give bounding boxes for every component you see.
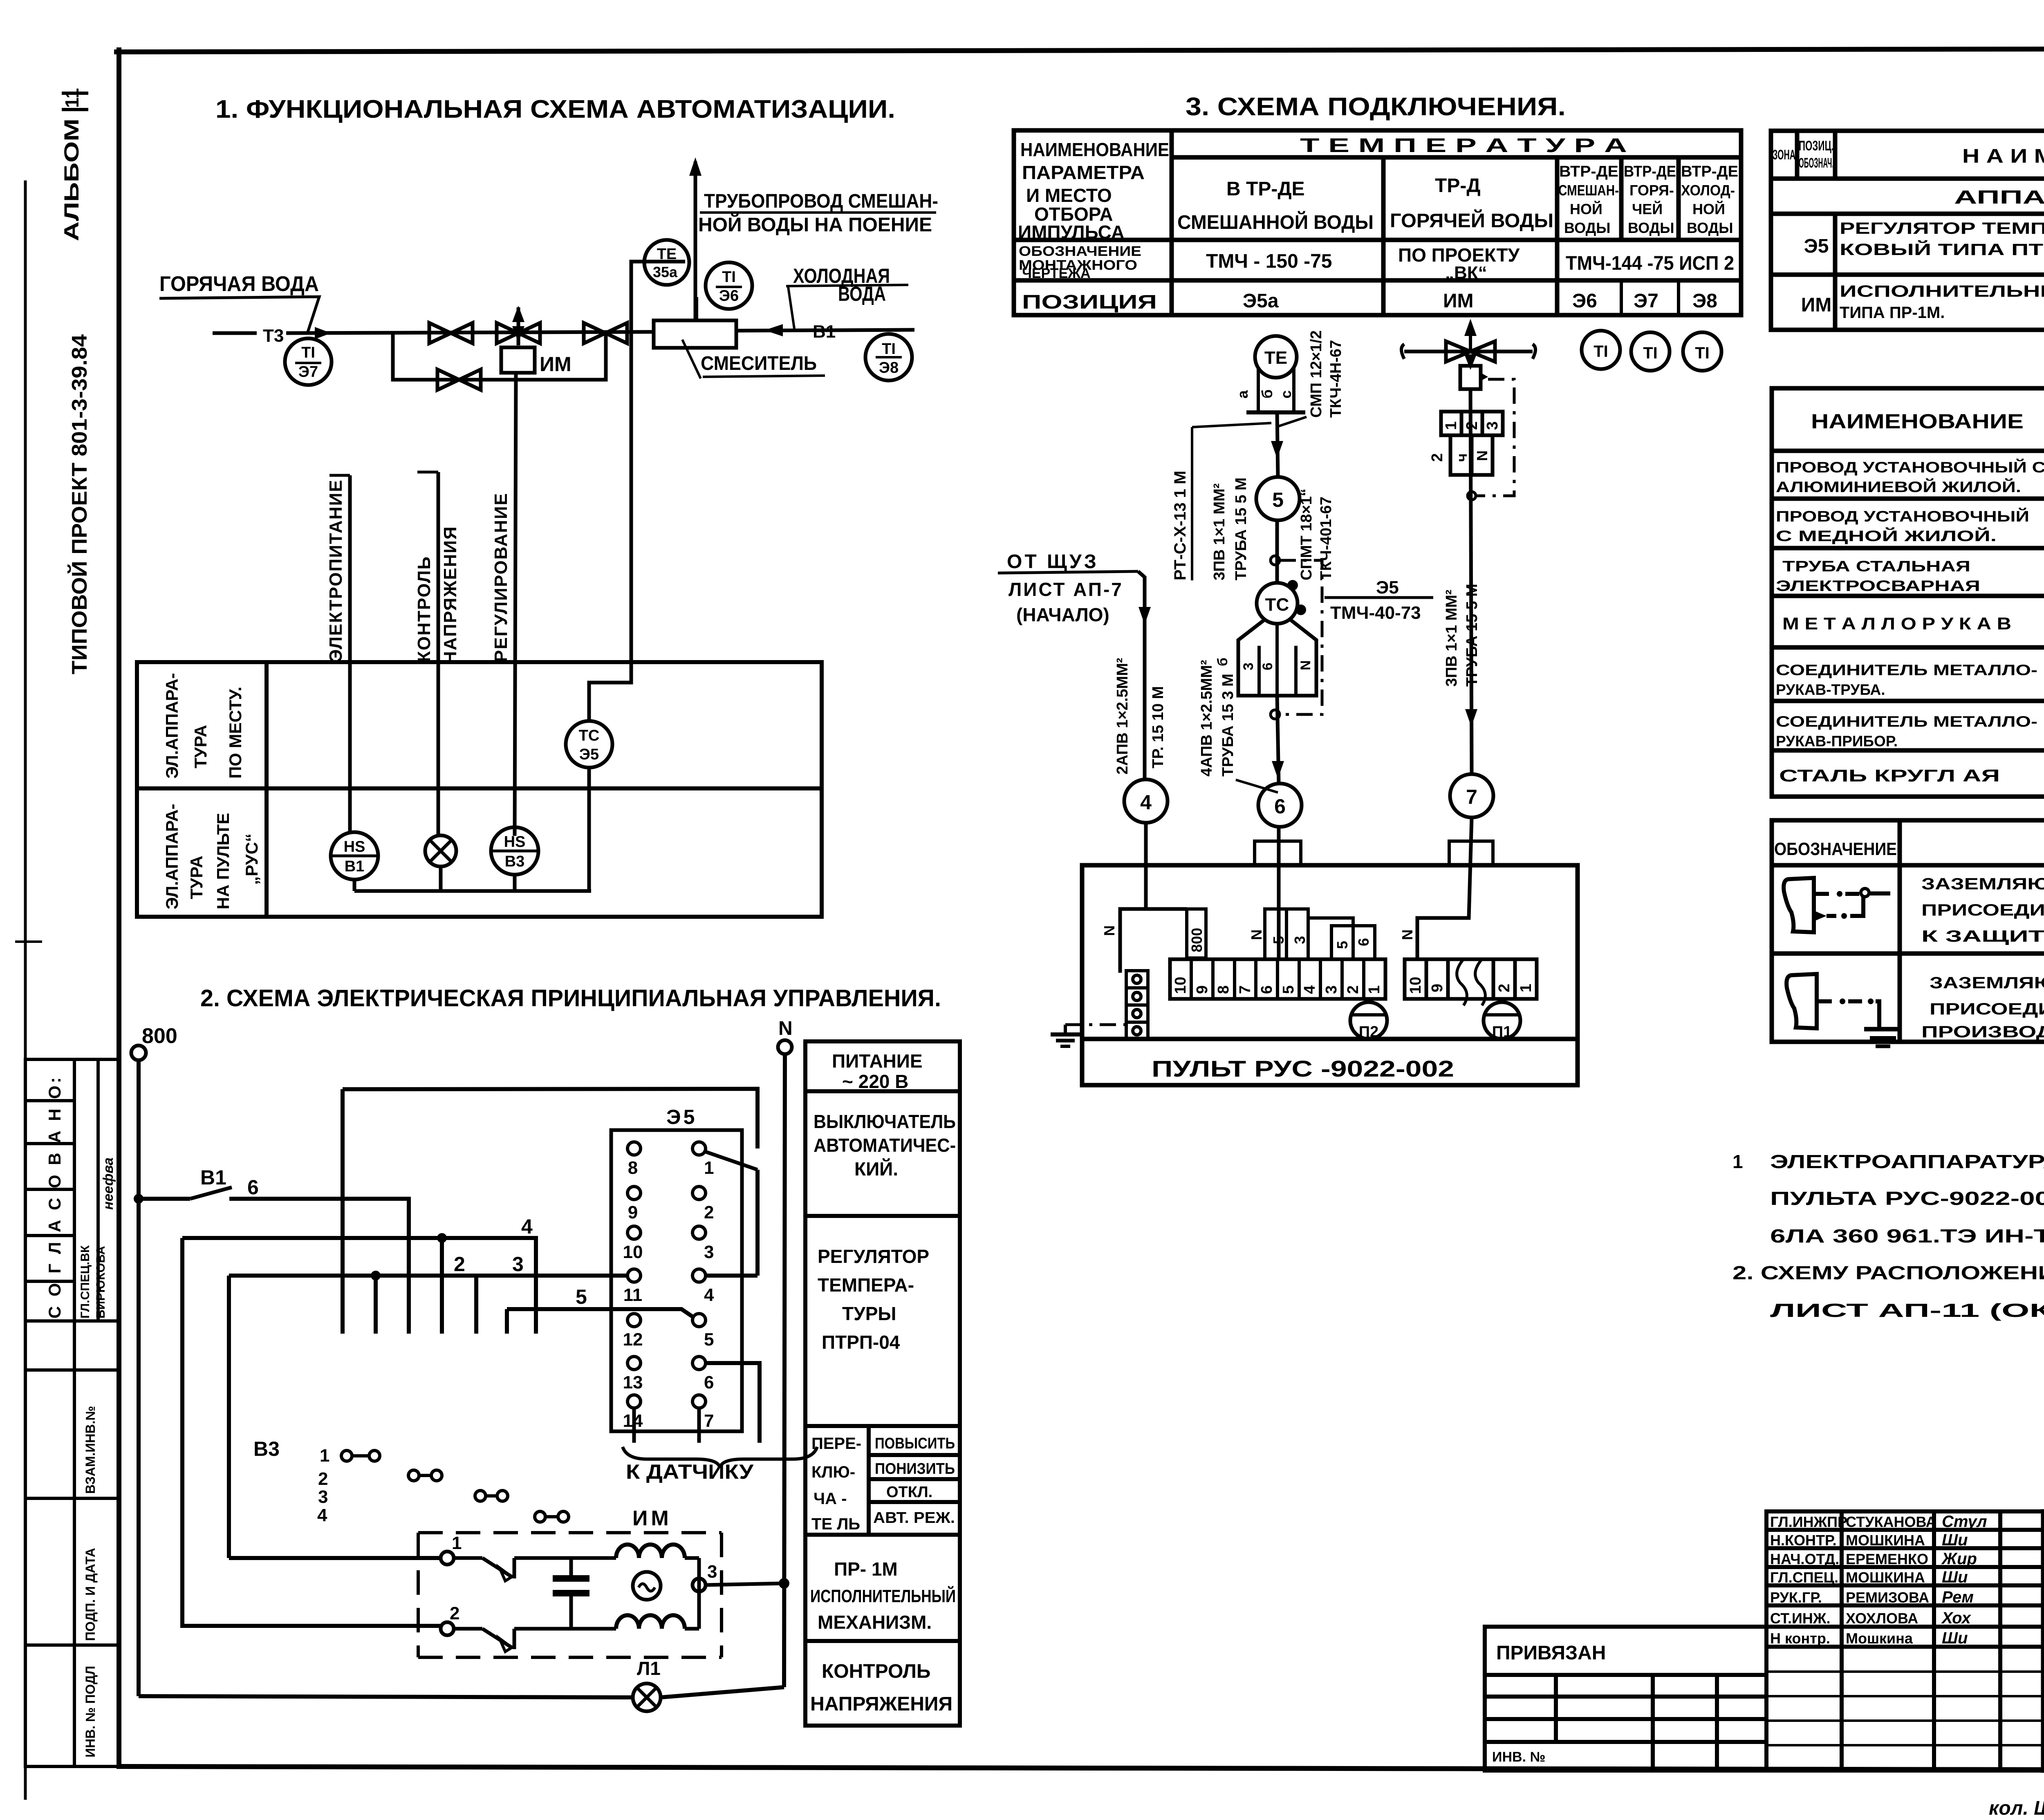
svg-text:1: 1 (1366, 985, 1383, 994)
svg-text:ч: ч (1453, 453, 1470, 462)
svg-text:N: N (1399, 929, 1416, 940)
hot water pipe Т3 (213, 331, 257, 335)
svg-text:ВТР-ДЕ: ВТР-ДЕ (1624, 163, 1676, 180)
svg-text:б: б (1215, 658, 1230, 666)
svg-text:9: 9 (1429, 984, 1446, 992)
HS/B1 circle (331, 832, 378, 880)
junction dot wire4 (437, 1233, 447, 1243)
svg-text:„РУС“: „РУС“ (242, 833, 261, 885)
svg-text:ТРУБА 15 5 М: ТРУБА 15 5 М (1233, 477, 1250, 580)
contact 6 wire (706, 1363, 760, 1443)
IM dashed box (418, 1533, 722, 1657)
R1: apparatus table (1771, 131, 2044, 330)
svg-text:7: 7 (1466, 786, 1477, 808)
svg-text:ХОЛОД-: ХОЛОД- (1681, 182, 1735, 199)
line mixer to TE circle and down (left vertical) (589, 262, 685, 722)
svg-text:11: 11 (61, 88, 83, 108)
svg-text:неефва: неефва (101, 1157, 116, 1210)
circle 7 (1450, 774, 1493, 817)
svg-text:КОНТРОЛЬ: КОНТРОЛЬ (414, 556, 434, 662)
svg-text:ТМЧ - 150 -75: ТМЧ - 150 -75 (1206, 251, 1332, 272)
svg-text:2. СХЕМУ РАСПОЛОЖЕНИЯ УЗЛА: 2. СХЕМУ РАСПОЛОЖЕНИЯ УЗЛА ПОЕНИЯ СМ. ВЫ… (1732, 1262, 2044, 1283)
svg-text:Э7: Э7 (1634, 290, 1659, 312)
lower coil (616, 1615, 685, 1629)
svg-text:б: б (1259, 390, 1275, 398)
svg-text:1. ФУНКЦИОНАЛЬНАЯ СХЕМА АВТО: 1. ФУНКЦИОНАЛЬНАЯ СХЕМА АВТОМАТИЗАЦИИ. (215, 95, 895, 123)
svg-text:N: N (1298, 660, 1313, 670)
svg-text:ЗАЗЕМЛЯЮЩИЙ ПРОВОДНИК ЭЛЕКТР: ЗАЗЕМЛЯЮЩИЙ ПРОВОДНИК ЭЛЕКТРОУСТАНОВКИ. (1921, 874, 2044, 893)
terminal 2 (441, 1622, 454, 1635)
пульт box (1082, 865, 1578, 1085)
R3: legend table (1772, 820, 2044, 1042)
TI/Э6 circle (706, 262, 752, 309)
svg-text:СПМТ 18×1“: СПМТ 18×1“ (1298, 488, 1315, 580)
svg-text:3: 3 (1291, 936, 1308, 944)
svg-text:ЭЛЕКТРОАППАРАТУРА В1.В3.Л1 ВХО: ЭЛЕКТРОАППАРАТУРА В1.В3.Л1 ВХОДИТ В КОМП… (1770, 1151, 2044, 1172)
svg-text:АВТ. РЕЖ.: АВТ. РЕЖ. (873, 1509, 955, 1527)
svg-text:ВЗАМ.ИНВ.№: ВЗАМ.ИНВ.№ (83, 1406, 98, 1494)
svg-text:ТУРА: ТУРА (191, 725, 210, 768)
svg-text:МЕХАНИЗМ.: МЕХАНИЗМ. (818, 1612, 932, 1633)
wire TC to 6 (1277, 696, 1279, 784)
svg-text:(НАЧАЛО): (НАЧАЛО) (1016, 604, 1109, 625)
svg-text:РЕГУЛЯТОР ТЕМПЕРАТУРЫ ПОЛУПРОВ: РЕГУЛЯТОР ТЕМПЕРАТУРЫ ПОЛУПРОВОДНИ- (1840, 219, 2044, 237)
svg-text:9: 9 (628, 1202, 638, 1222)
bracket cells above strip (1265, 909, 1375, 959)
svg-text:М Е Т А Л Л О Р У К А В: М Е Т А Л Л О Р У К А В (1782, 614, 2011, 633)
svg-text:АЛЮМИНИЕВОЙ ЖИЛОЙ.: АЛЮМИНИЕВОЙ ЖИЛОЙ. (1776, 478, 2021, 495)
svg-text:ЛИСТ АП-7: ЛИСТ АП-7 (1009, 579, 1123, 600)
circle 6 (1258, 784, 1302, 827)
svg-text:2: 2 (1345, 985, 1362, 994)
svg-text:К ЗАЩИТНОЙ ТРУБЕ.: К ЗАЩИТНОЙ ТРУБЕ. (1921, 927, 2044, 945)
thyristor on wire2 (454, 1627, 482, 1631)
svg-text:ВЫКЛЮЧАТЕЛЬ: ВЫКЛЮЧАТЕЛЬ (814, 1111, 956, 1132)
svg-text:СОЕДИНИТЕЛЬ МЕТАЛЛО-: СОЕДИНИТЕЛЬ МЕТАЛЛО- (1776, 662, 2037, 678)
terminal strip П1 cells 10,9,2,1 (1405, 959, 1537, 999)
svg-text:2: 2 (450, 1603, 459, 1623)
svg-text:Э8: Э8 (1692, 290, 1717, 312)
wire 4 bus (182, 1238, 536, 1334)
svg-text:ТЕ: ТЕ (1264, 348, 1287, 368)
svg-text:ТМЧ-144 -75 ИСП 2: ТМЧ-144 -75 ИСП 2 (1566, 253, 1734, 274)
svg-text:Э5: Э5 (666, 1106, 697, 1128)
svg-text:800: 800 (142, 1024, 177, 1048)
svg-text:ЗАЗЕМЛЯЮЩИЙ ПРОВОДНИК ЭЛЕКТР: ЗАЗЕМЛЯЮЩИЙ ПРОВОДНИК ЭЛЕКТРОУСТАНОВКИ, (1930, 973, 2044, 992)
svg-text:ТКЧ-4Н-67: ТКЧ-4Н-67 (1327, 340, 1345, 418)
svg-text:N: N (1248, 929, 1265, 940)
svg-text:5: 5 (704, 1330, 714, 1350)
svg-text:НА ПУЛЬТЕ: НА ПУЛЬТЕ (213, 813, 233, 909)
svg-text:4: 4 (1301, 985, 1318, 994)
svg-text:HS: HS (344, 838, 365, 855)
svg-text:4АПВ 1×2.5ММ²: 4АПВ 1×2.5ММ² (1198, 660, 1215, 777)
wire 5 to contact (507, 1309, 693, 1317)
svg-text:ЭЛ.АППАРА-: ЭЛ.АППАРА- (162, 804, 182, 909)
svg-text:ЕРЕМЕНКО: ЕРЕМЕНКО (1846, 1551, 1928, 1567)
ground terminal column (1126, 971, 1148, 1039)
svg-text:ГОРЯ-: ГОРЯ- (1629, 182, 1674, 199)
svg-text:ЭЛЕКТРОПИТАНИЕ: ЭЛЕКТРОПИТАНИЕ (326, 479, 346, 662)
svg-text:ТЕМПЕРА-: ТЕМПЕРА- (818, 1274, 914, 1296)
svg-text:Стул: Стул (1942, 1513, 1987, 1531)
svg-text:ПОЗИЦ.: ПОЗИЦ. (1799, 138, 1834, 154)
svg-text:В3: В3 (505, 853, 525, 870)
svg-text:МОШКИНА: МОШКИНА (1846, 1569, 1925, 1586)
П2 circle (1350, 1002, 1387, 1039)
switch B1 (139, 1197, 190, 1201)
svg-text:5: 5 (576, 1285, 587, 1308)
svg-text:6: 6 (704, 1372, 714, 1392)
TC circle (1257, 583, 1298, 624)
svg-text:ЧЕЙ: ЧЕЙ (1632, 200, 1663, 217)
leader underline for Горячая вода (159, 297, 319, 333)
svg-text:8: 8 (1215, 985, 1232, 994)
svg-text:ТИПОВОЙ ПРОЕКТ 801-3-39.84: ТИПОВОЙ ПРОЕКТ 801-3-39.84 (67, 334, 92, 674)
svg-text:ПИТАНИЕ: ПИТАНИЕ (832, 1050, 923, 1072)
svg-text:3: 3 (512, 1253, 524, 1276)
svg-text:НОЙ: НОЙ (1692, 200, 1725, 217)
svg-text:В ТР-ДЕ: В ТР-ДЕ (1226, 178, 1305, 200)
svg-text:ПРОВОД УСТАНОВОЧНЫЙ С: ПРОВОД УСТАНОВОЧНЫЙ С (1776, 459, 2044, 476)
svg-text:13: 13 (623, 1372, 643, 1392)
svg-text:4: 4 (1140, 791, 1152, 814)
svg-text:П2: П2 (1359, 1023, 1378, 1041)
frame top border (117, 48, 2044, 52)
svg-text:3: 3 (707, 1562, 717, 1582)
bypass loop (393, 333, 606, 380)
svg-text:ТРУБА 15 5 М: ТРУБА 15 5 М (1464, 584, 1481, 687)
svg-text:кол. Ш: кол. Ш (1989, 1798, 2044, 1819)
3-way control valve with actuator arrows (497, 307, 540, 345)
svg-text:ТI: ТI (882, 340, 896, 358)
svg-text:ПРОВОД УСТАНОВОЧНЫЙ: ПРОВОД УСТАНОВОЧНЫЙ (1776, 508, 2029, 525)
wires into IM (229, 1556, 441, 1560)
svg-text:СМЕСИТЕЛЬ: СМЕСИТЕЛЬ (701, 353, 817, 374)
svg-text:3: 3 (1241, 663, 1256, 670)
svg-text:Э6: Э6 (719, 287, 739, 304)
svg-text:Ши: Ши (1942, 1629, 1968, 1647)
svg-text:ТЕ ЛЬ: ТЕ ЛЬ (811, 1515, 860, 1533)
svg-text:ПОНИЗИТЬ: ПОНИЗИТЬ (875, 1460, 955, 1477)
svg-text:ВОДЫ: ВОДЫ (1687, 219, 1733, 236)
section1 lower table (137, 662, 822, 917)
svg-text:СМП 12×1/2: СМП 12×1/2 (1308, 330, 1325, 418)
svg-text:~ 220 В: ~ 220 В (842, 1071, 908, 1092)
svg-text:В1: В1 (345, 858, 365, 875)
svg-text:Э5: Э5 (1804, 235, 1829, 257)
svg-text:ПАРАМЕТРА: ПАРАМЕТРА (1022, 162, 1145, 183)
wire from 800 node down (137, 1060, 141, 1696)
svg-text:ЧА -: ЧА - (814, 1490, 847, 1508)
svg-text:ВТР-ДЕ: ВТР-ДЕ (1681, 163, 1738, 180)
svg-text:Н контр.: Н контр. (1770, 1630, 1830, 1647)
svg-text:ПРИСОЕДИНЯЕМЫЙ К БРОНЕ. ОБОЛО: ПРИСОЕДИНЯЕМЫЙ К БРОНЕ. ОБОЛОЧКЕ КАБЕЛЯ … (1921, 900, 2044, 919)
svg-text:ПУЛЬТА РУС-9022-002. ПО ЧЕРТЕ: ПУЛЬТА РУС-9022-002. ПО ЧЕРТЕЖАМ 6ЛА.360… (1770, 1188, 2044, 1209)
terminal block 1 2 3 (1441, 412, 1503, 475)
svg-text:ТУРЫ: ТУРЫ (842, 1303, 896, 1324)
svg-text:В3: В3 (253, 1437, 280, 1460)
svg-text:3: 3 (1484, 421, 1501, 430)
svg-text:СТ.ИНЖ.: СТ.ИНЖ. (1770, 1610, 1830, 1627)
svg-text:„ВК“: „ВК“ (1445, 263, 1487, 283)
svg-text:ТР-Д: ТР-Д (1435, 175, 1481, 197)
svg-text:3ПВ 1×1 ММ²: 3ПВ 1×1 ММ² (1211, 484, 1228, 580)
svg-text:5: 5 (1272, 488, 1284, 511)
wire with arrow (286, 332, 654, 333)
svg-text:Н.КОНТР.: Н.КОНТР. (1770, 1532, 1837, 1549)
svg-text:Э5а: Э5а (1243, 290, 1279, 312)
svg-text:ГОРЯЧАЯ ВОДА: ГОРЯЧАЯ ВОДА (159, 272, 319, 296)
svg-text:6: 6 (1355, 938, 1372, 946)
svg-text:Т Е М П Е Р А Т У Р А: Т Е М П Е Р А Т У Р А (1300, 135, 1627, 157)
svg-text:Ши: Ши (1942, 1568, 1968, 1586)
svg-text:НАПРЯЖЕНИЯ: НАПРЯЖЕНИЯ (810, 1693, 953, 1715)
svg-text:800: 800 (1188, 928, 1205, 952)
svg-text:6ЛА 360 961.ТЭ ИН-ТА „ВНИИЭЛ: 6ЛА 360 961.ТЭ ИН-ТА „ВНИИЭЛЕКТРОПРИВОД“… (1770, 1225, 2044, 1247)
svg-text:КИЙ.: КИЙ. (854, 1158, 898, 1180)
svg-text:ИМПУЛЬСА: ИМПУЛЬСА (1018, 222, 1125, 243)
svg-text:РТ-С-Х-13 1 М: РТ-С-Х-13 1 М (1171, 471, 1189, 580)
circle 5 (1256, 477, 1300, 520)
svg-text:ТУРА: ТУРА (187, 856, 206, 899)
svg-text:МОШКИНА: МОШКИНА (1846, 1532, 1925, 1549)
svg-text:ГЛ.ИНЖПР: ГЛ.ИНЖПР (1770, 1513, 1847, 1530)
frame bottom border (119, 1766, 2044, 1771)
motor circle (633, 1572, 661, 1600)
Привязан box (1485, 1627, 1766, 1771)
contact 14 and 7 stubs (632, 1408, 636, 1443)
svg-text:Рем: Рем (1942, 1588, 1974, 1606)
svg-text:2: 2 (1496, 984, 1513, 992)
capacitor (569, 1558, 573, 1578)
svg-text:АВТОМАТИЧЕС-: АВТОМАТИЧЕС- (814, 1135, 956, 1156)
wire from 4 into пульт (1144, 823, 1148, 909)
wire электропитание (348, 475, 352, 832)
svg-text:СТУКАНОВА: СТУКАНОВА (1846, 1513, 1936, 1530)
wire 5 to TC (1275, 520, 1279, 583)
svg-text:ТI: ТI (1695, 344, 1710, 362)
svg-text:РЕГУЛЯТОР: РЕГУЛЯТОР (818, 1246, 929, 1267)
svg-text:ИМ: ИМ (1801, 294, 1831, 316)
junction dot B1 (134, 1194, 143, 1204)
svg-text:ОТ ЩУЗ: ОТ ЩУЗ (1007, 551, 1099, 573)
svg-text:ИМ: ИМ (540, 353, 572, 376)
svg-text:РУКАВ-ТРУБА.: РУКАВ-ТРУБА. (1776, 681, 1885, 698)
svg-text:НАИМЕНОВАНИЕ: НАИМЕНОВАНИЕ (1811, 410, 2024, 433)
svg-text:ВОДЫ: ВОДЫ (1564, 219, 1611, 236)
svg-text:6: 6 (1274, 795, 1286, 818)
wire from 6 into strip (1277, 827, 1281, 959)
svg-text:ТI: ТI (1594, 343, 1608, 360)
svg-text:КОВЫЙ ТИПА ПТРП-04; ТУ 03 - 3: КОВЫЙ ТИПА ПТРП-04; ТУ 03 - 346 - 66. (1840, 240, 2044, 259)
svg-text:7: 7 (1237, 985, 1254, 994)
junction dot wire11 (371, 1271, 381, 1280)
svg-text:3: 3 (318, 1487, 328, 1507)
mixer rectangle (654, 320, 736, 348)
svg-text:РУК.ГР.: РУК.ГР. (1770, 1589, 1822, 1606)
svg-text:Жир: Жир (1941, 1550, 1977, 1568)
legend symbol row1 (1784, 878, 1814, 932)
svg-text:ТI: ТI (722, 269, 736, 286)
svg-text:К ДАТЧИКУ: К ДАТЧИКУ (626, 1460, 754, 1483)
svg-text:1: 1 (704, 1158, 714, 1178)
svg-text:ТРУБА 15 3 М: ТРУБА 15 3 М (1219, 674, 1237, 777)
svg-text:ТI: ТI (301, 344, 315, 361)
cold water inflow (736, 330, 914, 331)
svg-text:НАПРЯЖЕНИЯ: НАПРЯЖЕНИЯ (440, 526, 460, 664)
svg-text:НОЙ: НОЙ (1570, 200, 1602, 217)
terminal 3 (693, 1578, 706, 1592)
svg-text:4: 4 (704, 1285, 714, 1305)
svg-text:Н А И М Е Н О В А Н И Е: Н А И М Е Н О В А Н И Е (1962, 146, 2044, 167)
valve V1 on hot pipe (429, 323, 473, 343)
svg-text:11: 11 (623, 1285, 643, 1305)
wire 11 bus (229, 1274, 628, 1278)
svg-text:ПЕРЕ-: ПЕРЕ- (811, 1435, 861, 1453)
svg-text:ТМЧ-40-73: ТМЧ-40-73 (1330, 603, 1421, 623)
svg-text:Э5: Э5 (579, 746, 599, 763)
wire 6 (229, 1199, 409, 1334)
svg-text:1: 1 (320, 1446, 329, 1466)
bottom bus connecting circles (353, 880, 356, 891)
svg-text:2: 2 (318, 1469, 328, 1489)
svg-text:Л1: Л1 (637, 1658, 661, 1679)
svg-text:N: N (1474, 450, 1490, 461)
top wire to Э5 contact 1 (343, 1089, 758, 1148)
svg-text:Э6: Э6 (1572, 290, 1597, 312)
wire контроль напряжения (437, 472, 440, 836)
svg-text:ИНВ. № ПОДЛ: ИНВ. № ПОДЛ (83, 1666, 98, 1757)
svg-text:1: 1 (1732, 1151, 1743, 1172)
legend symbol row2 (1786, 974, 1817, 1028)
svg-text:АППАРАТУРА ПО МЕСТУ.: АППАРАТУРА ПО МЕСТУ. (1954, 186, 2044, 208)
svg-text:АЛЬБОМ: АЛЬБОМ (60, 119, 83, 241)
svg-text:И МЕСТО: И МЕСТО (1026, 185, 1112, 206)
regulirovanie wire from IM down (515, 373, 516, 836)
svg-text:HS: HS (504, 833, 526, 851)
svg-text:3: 3 (704, 1242, 714, 1262)
svg-text:ПОЗИЦИЯ: ПОЗИЦИЯ (1022, 291, 1157, 313)
wire from 7 into strip2 (1417, 817, 1472, 959)
svg-text:П1: П1 (1492, 1023, 1512, 1041)
svg-text:ТI: ТI (1643, 344, 1658, 362)
svg-text:ТС: ТС (1265, 595, 1289, 615)
svg-text:ИМ: ИМ (1443, 290, 1473, 312)
svg-text:БИРЮКОВА: БИРЮКОВА (94, 1246, 108, 1319)
svg-text:СТАЛЬ КРУГЛ АЯ: СТАЛЬ КРУГЛ АЯ (1779, 766, 2000, 785)
svg-text:ПРИВЯЗАН: ПРИВЯЗАН (1496, 1642, 1606, 1664)
valve V2 right (584, 323, 627, 343)
plug trapezoid under TC (1238, 619, 1316, 696)
svg-text:ПТРП-04: ПТРП-04 (822, 1332, 900, 1353)
svg-text:ИСПОЛНИТЕЛЬНЫЙ: ИСПОЛНИТЕЛЬНЫЙ (810, 1585, 956, 1606)
svg-text:НАЧ.ОТД.: НАЧ.ОТД. (1770, 1551, 1839, 1567)
upper coil (616, 1545, 685, 1558)
svg-text:КОНТРОЛЬ: КОНТРОЛЬ (822, 1661, 930, 1682)
sheet outer thin left line (24, 182, 27, 1798)
fold tick marks (16, 940, 41, 943)
svg-text:С МЕДНОЙ ЖИЛОЙ.: С МЕДНОЙ ЖИЛОЙ. (1776, 527, 1997, 544)
bottom-left margin table (25, 1059, 119, 1766)
outgoing pipe up with arrow (mixed water to поение) (694, 161, 697, 320)
TI/Э8 circle (865, 334, 912, 381)
svg-text:СМЕШАННОЙ ВОДЫ: СМЕШАННОЙ ВОДЫ (1177, 211, 1374, 233)
svg-text:ХОХЛОВА: ХОХЛОВА (1846, 1610, 1918, 1627)
svg-text:2. СХЕМА ЭЛЕКТРИЧЕСКАЯ ПРИНЦИП: 2. СХЕМА ЭЛЕКТРИЧЕСКАЯ ПРИНЦИПИАЛЬНАЯ УП… (200, 985, 941, 1012)
terminal 1 (441, 1551, 454, 1565)
svg-text:4: 4 (521, 1215, 533, 1238)
svg-text:ОБОЗНАЧ.: ОБОЗНАЧ. (1799, 155, 1834, 171)
svg-text:ЭЛ.АППАРА-: ЭЛ.АППАРА- (162, 673, 182, 779)
HS/B3 circle (491, 827, 538, 875)
dash-dot from actuator to wire junction (1477, 379, 1514, 496)
blade contact1 (706, 1152, 758, 1170)
svg-text:а: а (1234, 390, 1251, 398)
svg-text:N: N (778, 1018, 793, 1039)
svg-text:ПОДП. И ДАТА: ПОДП. И ДАТА (83, 1548, 98, 1641)
svg-text:РЕМИЗОВА: РЕМИЗОВА (1846, 1589, 1929, 1606)
thyristor on wire1 (454, 1556, 482, 1560)
instrument circle TI/Э7 (285, 338, 332, 385)
svg-text:Хох: Хох (1941, 1609, 1972, 1627)
svg-text:ИМ: ИМ (632, 1507, 672, 1530)
svg-text:12: 12 (623, 1330, 643, 1350)
svg-text:ЭЛЕКТРОСВАРНАЯ: ЭЛЕКТРОСВАРНАЯ (1776, 578, 1980, 594)
svg-text:2: 2 (1429, 453, 1446, 462)
wire to 7 (1470, 389, 1472, 774)
svg-text:ТИПА ПР-1М.: ТИПА ПР-1М. (1840, 304, 1945, 322)
svg-text:N: N (1101, 925, 1118, 936)
lamp circle (425, 835, 456, 866)
svg-text:ПУЛЬТ РУС -9022-002: ПУЛЬТ РУС -9022-002 (1152, 1056, 1454, 1081)
svg-text:10: 10 (1407, 977, 1424, 994)
svg-text:10: 10 (623, 1242, 643, 1262)
svg-text:КЛЮ-: КЛЮ- (811, 1463, 855, 1481)
svg-text:ТРУБА СТАЛЬНАЯ: ТРУБА СТАЛЬНАЯ (1782, 558, 1970, 575)
svg-text:В1: В1 (813, 322, 836, 342)
dash-dot to ground (1065, 1023, 1126, 1026)
svg-text:ОТКЛ.: ОТКЛ. (886, 1484, 932, 1501)
svg-text:ПОВЫСИТЬ: ПОВЫСИТЬ (875, 1435, 955, 1452)
svg-text:РУКАВ-ПРИБОР.: РУКАВ-ПРИБОР. (1776, 733, 1898, 750)
svg-text:3. СХЕМА ПОДКЛЮЧЕНИЯ.: 3. СХЕМА ПОДКЛЮЧЕНИЯ. (1186, 93, 1566, 121)
R2: materials table (1772, 388, 2044, 797)
svg-text:ТР. 15 10 М: ТР. 15 10 М (1150, 686, 1167, 768)
svg-text:с: с (1277, 390, 1294, 398)
svg-text:Т3: Т3 (263, 326, 284, 346)
svg-text:Ши: Ши (1942, 1531, 1968, 1549)
frame left border (117, 50, 121, 1766)
svg-text:ТС: ТС (579, 727, 600, 744)
bypass valve (437, 369, 481, 390)
right annotation column (805, 1041, 960, 1726)
svg-text:8: 8 (628, 1158, 638, 1178)
svg-text:6: 6 (1260, 663, 1275, 670)
svg-text:ТКЧ-401-67: ТКЧ-401-67 (1318, 497, 1335, 580)
800 cell (1187, 909, 1206, 958)
svg-text:В1: В1 (200, 1166, 226, 1189)
left connection table (1014, 130, 1741, 315)
svg-text:С О Г Л А С О В А Н О:: С О Г Л А С О В А Н О: (45, 1075, 64, 1319)
svg-text:9: 9 (1194, 985, 1211, 994)
dash-dot loop right of TC (1280, 560, 1322, 714)
svg-text:3ПВ 1×1 ММ²: 3ПВ 1×1 ММ² (1443, 590, 1460, 687)
svg-text:5: 5 (1334, 941, 1351, 949)
svg-text:ПРИСОЕДИНЯЕМЫЙ К МЕТАЛЛОКОНС: ПРИСОЕДИНЯЕМЫЙ К МЕТАЛЛОКОНСТРУКЦИИ (1930, 999, 2044, 1018)
svg-text:3: 3 (1323, 985, 1340, 994)
svg-text:ВОДЫ: ВОДЫ (1628, 219, 1674, 236)
